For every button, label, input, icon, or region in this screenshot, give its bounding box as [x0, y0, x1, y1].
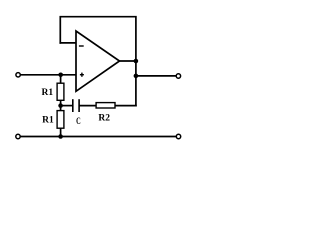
svg-text:R1: R1 — [42, 116, 54, 126]
svg-text:C: C — [76, 117, 81, 127]
svg-text:R1: R1 — [42, 88, 54, 98]
svg-text:R2: R2 — [98, 114, 110, 124]
